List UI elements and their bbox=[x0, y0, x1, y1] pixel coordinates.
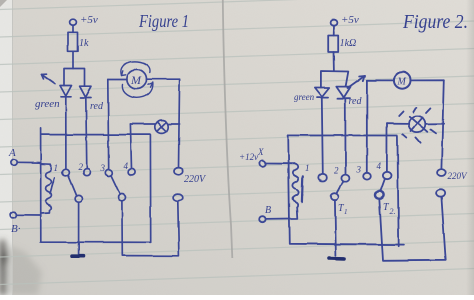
svg-text:1k: 1k bbox=[79, 38, 89, 49]
svg-text:green: green bbox=[35, 98, 60, 110]
svg-text:M: M bbox=[397, 77, 407, 88]
svg-text:2: 2 bbox=[79, 162, 84, 172]
svg-text:220V: 220V bbox=[448, 171, 469, 181]
svg-text:+5v: +5v bbox=[80, 14, 98, 26]
svg-text:2.: 2. bbox=[390, 207, 396, 216]
svg-text:1kΩ: 1kΩ bbox=[340, 38, 357, 49]
svg-text:green: green bbox=[294, 92, 315, 102]
svg-text:+12v: +12v bbox=[239, 152, 258, 162]
svg-text:Figure 2.: Figure 2. bbox=[402, 11, 468, 33]
svg-text:3: 3 bbox=[356, 165, 362, 175]
svg-text:X: X bbox=[257, 147, 264, 157]
svg-text:4: 4 bbox=[377, 161, 382, 171]
svg-text:A: A bbox=[8, 147, 16, 159]
svg-text:red: red bbox=[90, 101, 104, 112]
svg-text:2: 2 bbox=[334, 166, 339, 176]
svg-text:+5v: +5v bbox=[341, 14, 359, 26]
svg-text:4: 4 bbox=[124, 161, 129, 171]
svg-text:220V: 220V bbox=[184, 174, 207, 185]
svg-text:1: 1 bbox=[305, 163, 310, 173]
svg-text:M: M bbox=[130, 73, 142, 87]
svg-text:1: 1 bbox=[54, 163, 59, 173]
svg-text:red: red bbox=[349, 96, 363, 107]
svg-text:Figure 1: Figure 1 bbox=[138, 11, 189, 31]
svg-text:1: 1 bbox=[344, 208, 348, 216]
svg-text:3: 3 bbox=[100, 163, 106, 173]
svg-text:B: B bbox=[265, 205, 271, 216]
svg-text:B·: B· bbox=[11, 223, 21, 235]
